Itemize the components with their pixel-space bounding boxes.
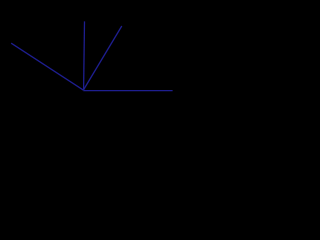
geometry figure: four rays from a common vertex xyxy=(0,0,190,122)
ray horizontal right from vertex xyxy=(83,90,172,92)
ray vertical from vertex xyxy=(83,21,86,90)
ray up-right from vertex xyxy=(83,26,121,90)
ray up-left from vertex xyxy=(11,43,83,90)
